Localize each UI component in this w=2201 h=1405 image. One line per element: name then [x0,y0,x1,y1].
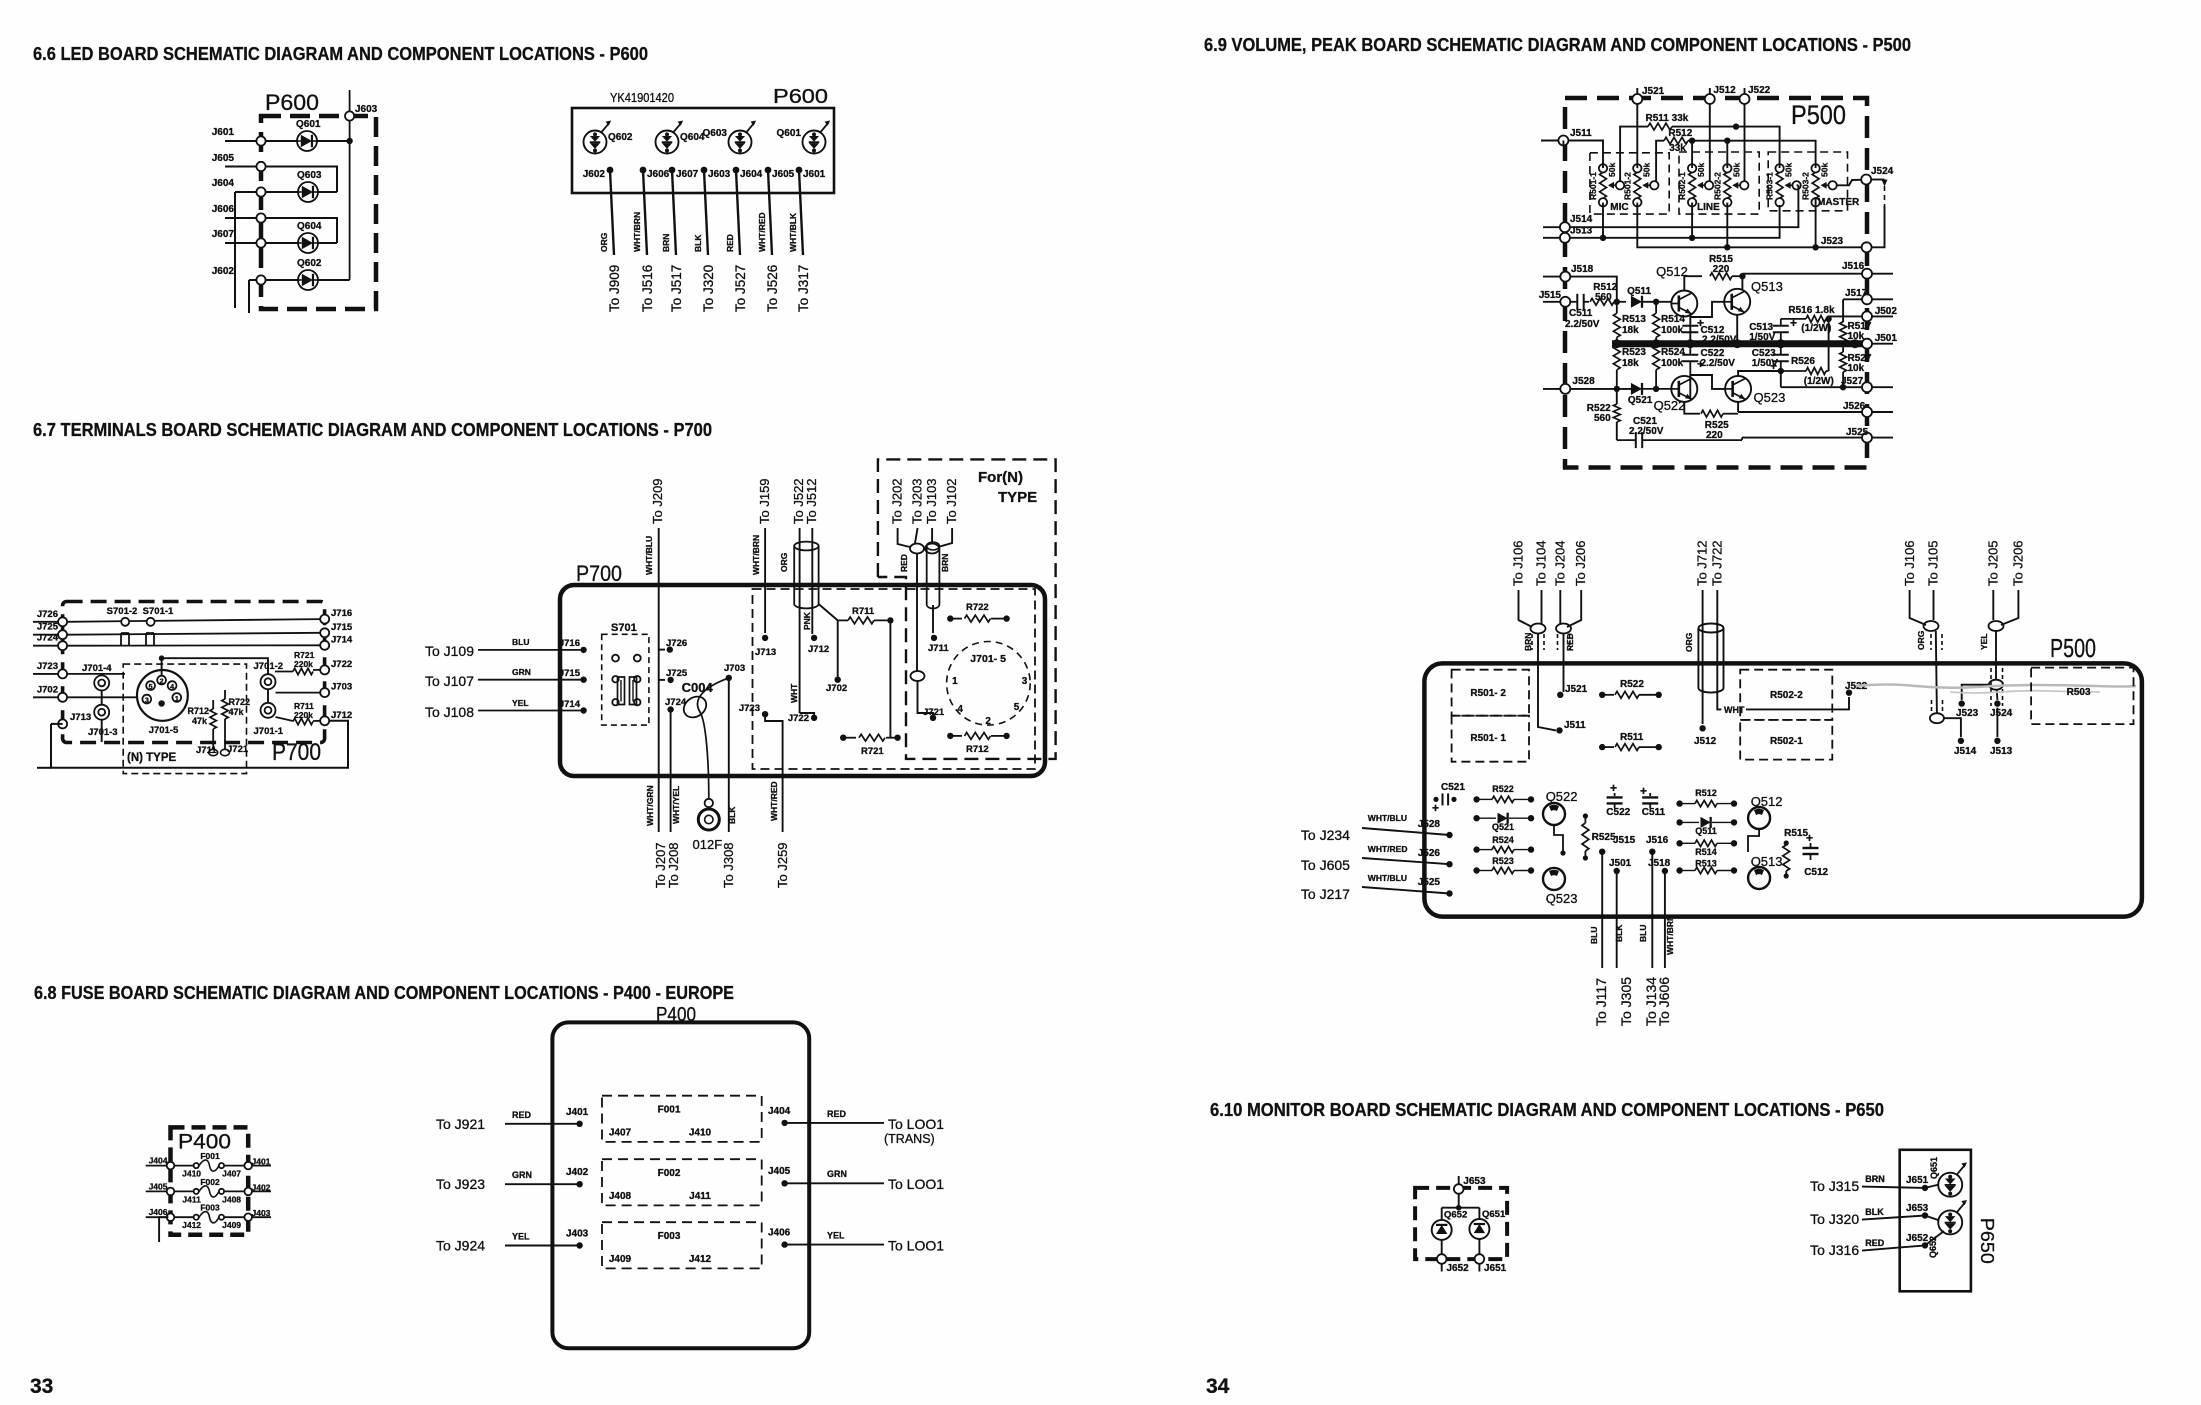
node J401 [576,1121,582,1127]
node J712 [811,635,817,641]
svg-text:R502-2: R502-2 [1770,690,1803,701]
svg-text:J401: J401 [252,1157,271,1167]
connector pin J525 [1862,433,1872,443]
wire row J725-J715 [67,633,320,635]
svg-text:RED: RED [725,234,735,252]
svg-text:J711: J711 [196,745,217,756]
svg-text:To J909: To J909 [607,265,622,312]
resistor R512 (comp loc) [1676,800,1682,806]
wire To J512 drop [811,528,813,634]
svg-text:J512: J512 [1714,85,1737,96]
wire J701-2 to J701-1 [267,689,269,703]
svg-text:J603: J603 [708,169,731,180]
svg-text:Q602: Q602 [297,258,322,269]
svg-text:F003: F003 [200,1203,220,1213]
svg-text:J726: J726 [666,638,687,649]
connector pin J604 [256,187,265,196]
connector pin J703 [320,688,329,697]
cable tube 2 [926,546,928,605]
arrow at J524 [1871,179,1884,181]
wire row J726-J716 with switch S701 [67,619,320,622]
svg-text:J410: J410 [689,1128,712,1139]
svg-text:TYPE: TYPE [998,489,1037,506]
node right of R711 [887,617,893,623]
wire J726 stub [33,621,63,623]
svg-text:To J206: To J206 [2011,540,2026,586]
LED Q604 (component location) [656,131,679,154]
wire J607 lead [672,170,676,255]
resistor R522 (comp loc lower) [1473,796,1479,802]
svg-text:F001: F001 [658,1105,681,1116]
wire J602 row [249,279,298,281]
svg-text:+: + [1806,831,1813,845]
svg-text:2: 2 [985,716,991,727]
wire ring1 down to ring3 [916,554,918,672]
svg-text:YEL: YEL [827,1231,845,1241]
wire Q523 base link [1690,375,1725,389]
svg-text:To LOO1: To LOO1 [888,1116,944,1132]
svg-text:Q603: Q603 [703,128,728,139]
wire to LOO1 row 2 [785,1182,884,1184]
svg-text:Q522: Q522 [1654,398,1686,413]
wire J605 row [225,167,337,193]
svg-text:C522: C522 [1606,807,1630,818]
svg-text:PNK: PNK [802,611,812,630]
svg-text:R516 1.8k: R516 1.8k [1788,305,1835,316]
capacitor C511 2.2/50V [1570,301,1577,303]
svg-text:220k: 220k [294,659,313,669]
svg-text:2.2/50V: 2.2/50V [1629,426,1664,437]
svg-text:J405: J405 [768,1166,791,1177]
wire row J723 [67,673,125,675]
svg-text:GRN: GRN [827,1169,847,1179]
svg-text:To J512: To J512 [804,478,819,524]
connector pin J723 [58,669,67,678]
svg-text:R524: R524 [1492,835,1514,845]
svg-text:To J722: To J722 [1709,540,1724,586]
wire Q513 base link [1690,302,1724,317]
svg-text:J701- 5: J701- 5 [970,653,1006,665]
MIC pot dashed box [1590,153,1669,214]
svg-text:To J109: To J109 [425,643,474,659]
wire R711 node down [889,620,891,737]
svg-text:R511: R511 [1620,732,1644,743]
node J702 [835,677,841,683]
svg-text:+: + [1432,801,1439,815]
connector pin J517 [1862,294,1872,304]
svg-text:J521: J521 [1642,86,1665,97]
LINE pot dashed box [1679,152,1759,214]
resistor R527 10k [1840,352,1847,372]
potentiometer R503-1 50k [1776,172,1783,198]
svg-text:YEL: YEL [512,698,529,708]
svg-text:Q511: Q511 [1627,286,1651,297]
svg-text:J607: J607 [212,229,235,240]
svg-text:J701-1: J701-1 [254,726,284,737]
wire Q522 emitter down [1689,376,1691,400]
svg-text:S701-1: S701-1 [143,606,174,617]
svg-text:J516: J516 [1842,261,1865,272]
connector pin J513 [1560,233,1570,243]
wire J603 vertical [349,90,351,280]
wire Q522-Q523 link [1554,825,1563,853]
DIN pin 2 [157,676,166,685]
wire R515 node to J516 row [1741,276,1743,289]
svg-text:J412: J412 [182,1220,201,1230]
svg-text:WHT/RED: WHT/RED [757,212,767,252]
wire J723 stub [33,673,63,675]
svg-text:J721: J721 [227,744,249,755]
LED Q601 (component location) [803,131,826,154]
svg-text:J515: J515 [1539,290,1562,301]
svg-text:(1/2W): (1/2W) [1801,323,1831,334]
connector pin J605 [256,162,265,171]
svg-text:R512: R512 [1695,788,1717,798]
svg-text:J701-2: J701-2 [254,661,284,672]
wire J604 lead [736,170,740,255]
svg-text:J502: J502 [1875,306,1898,317]
terminal 012F [705,799,713,807]
connector pin J602 [256,275,265,284]
node J406 [781,1241,787,1247]
svg-text:R503-2: R503-2 [1801,172,1811,200]
wire J723 drop [765,714,783,832]
svg-text:3: 3 [145,696,149,705]
wire J604 external drop [234,192,236,308]
wire To J107 row [478,679,584,681]
svg-text:J404: J404 [149,1156,168,1166]
resistor R513 (comp loc) [1676,867,1682,873]
wire R722 to J721 [224,719,226,749]
svg-text:J605: J605 [772,169,795,180]
svg-text:R711: R711 [852,606,875,617]
connector pin J722 [320,665,329,674]
svg-text:F003: F003 [658,1231,681,1242]
svg-text:J407: J407 [222,1169,241,1179]
svg-text:Q521: Q521 [1628,395,1653,406]
svg-text:R503-1: R503-1 [1765,172,1775,200]
connector pin J515 [1560,297,1570,307]
terminal J721 [221,749,230,755]
svg-text:J408: J408 [609,1191,632,1202]
wire J522 to R502-2 wiper [1744,104,1746,181]
svg-text:3: 3 [1022,676,1028,687]
svg-text:J513: J513 [1990,746,2013,757]
svg-text:R523: R523 [1622,347,1646,358]
svg-text:Q603: Q603 [297,170,322,181]
svg-text:F002: F002 [200,1177,220,1187]
terminal J711 [209,749,218,755]
main bus (thick) [1612,340,1871,347]
svg-text:J725: J725 [37,622,59,633]
svg-text:1: 1 [952,676,958,687]
board P600 outline (component location) [572,108,834,193]
svg-text:J653: J653 [1463,1176,1486,1187]
svg-text:To J117: To J117 [1593,978,1609,1026]
connector pin J521 [1636,88,1638,94]
svg-text:J412: J412 [689,1254,712,1265]
wire R503-1 wiper down [1797,184,1799,186]
svg-text:To J308: To J308 [721,842,736,888]
DIN pin 4 [168,681,177,690]
svg-text:J701-5: J701-5 [149,725,179,736]
svg-text:To J317: To J317 [796,265,811,312]
connector pin J601 [256,136,265,145]
node J404 [781,1120,787,1126]
cable ring 2 [925,544,939,554]
wire J606 row [225,218,337,243]
node J724 [667,706,673,712]
R501-2 / R501-1 dashed boxes [1452,670,1529,716]
node J522 (comp loc) [1846,690,1852,696]
svg-text:50k: 50k [1784,163,1794,177]
wire R722 top [224,690,226,699]
svg-text:F002: F002 [658,1168,681,1179]
svg-text:For(N): For(N) [978,469,1023,486]
wire Q512 collector to R515 [1684,276,1702,290]
pin J605 (component location) [765,167,772,174]
pin J604 (component location) [733,167,740,174]
svg-text:WHT/RED: WHT/RED [1368,844,1408,854]
node J513 (comp loc right) [1996,708,1998,737]
wire J605 lead [768,170,772,255]
scan noise streak [1856,685,2136,688]
svg-text:4: 4 [957,704,963,715]
wire R502-1 top [1691,141,1693,168]
svg-text:J406: J406 [149,1207,168,1217]
connector pin J715 [320,628,329,637]
svg-text:220k: 220k [294,710,313,720]
wire To J712 through tube to J512 [1702,590,1704,724]
svg-text:J411: J411 [689,1191,711,1202]
resistor R523 (comp loc) [1473,867,1479,873]
wire R526 to R516 node [1828,319,1830,371]
svg-text:J652: J652 [1447,1263,1470,1274]
node J716 [580,647,586,653]
svg-text:To J320: To J320 [1810,1211,1859,1227]
node J722 [811,715,817,721]
wire J517 row [1842,299,1844,322]
svg-text:100k: 100k [1661,358,1684,369]
svg-text:100k: 100k [1661,325,1684,336]
svg-text:To J159: To J159 [757,478,772,524]
wire To J522 drop inside tube [799,528,801,713]
wire To J202 elbow [898,528,910,547]
wire R511 connections [1620,127,1648,182]
switch S701-1 contact [147,618,155,626]
svg-text:J403: J403 [252,1208,271,1218]
connector pin J524 [1861,175,1871,185]
svg-text:J525: J525 [1846,427,1869,438]
wire J526 row [1738,411,1862,413]
wire cable to R711 node [819,604,838,620]
svg-text:J601: J601 [803,169,826,180]
svg-text:R503: R503 [2067,687,2091,698]
connector pin J651 (schematic) [1475,1254,1485,1264]
resistor R712 (schematic bottom) [947,733,953,739]
wire node to J701-2 [162,658,268,674]
svg-text:J703: J703 [724,663,745,674]
cable ring 3 [911,671,925,681]
svg-text:Q522: Q522 [1546,789,1578,804]
cable shield tube [793,546,795,604]
svg-text:R523: R523 [1492,856,1514,866]
diode Q601 [297,131,317,151]
resistor R525 220 [1701,410,1723,417]
svg-text:Q521: Q521 [1492,822,1514,832]
svg-text:MASTER: MASTER [1817,197,1860,208]
svg-text:J607: J607 [676,169,699,180]
pin J606 (component location) [640,167,647,174]
wire J521 to R501-2 [1636,104,1638,168]
svg-text:J701-4: J701-4 [82,663,112,674]
DIN pin 5 [146,681,155,690]
svg-text:WHT/BRN: WHT/BRN [751,535,761,575]
svg-text:J651: J651 [1906,1175,1929,1186]
svg-text:J722: J722 [331,659,352,670]
svg-text:J605: J605 [212,153,235,164]
connector pin J523 [1862,242,1872,252]
cable ring 1 [910,544,924,554]
cable ring ORG lower [1930,713,1944,723]
node J725 [659,679,665,681]
svg-text:P700: P700 [576,561,622,586]
transistor Q522 [1671,376,1697,402]
svg-text:To J527: To J527 [733,265,748,312]
node J405 [781,1180,787,1186]
svg-text:R513: R513 [1695,859,1717,869]
wire J701-4 to J701-3 [101,690,103,704]
board P600 dashed outline [261,116,376,309]
svg-text:J653: J653 [1906,1203,1929,1214]
svg-text:To J206: To J206 [1573,540,1588,586]
fuse F001 row (component location) [146,1165,193,1167]
svg-text:J404: J404 [768,1106,791,1117]
connector pin J702 [58,693,67,702]
svg-text:J515: J515 [1613,835,1636,846]
svg-text:J512: J512 [1694,736,1717,747]
wire J606 lead [643,170,647,255]
wire Q523 emitter to J526 row [1737,402,1739,412]
svg-text:J725: J725 [666,668,688,679]
wire R712 to J711 [212,729,214,749]
DIN location J701-5 dashed circle [947,642,1031,726]
svg-text:To J924: To J924 [436,1238,485,1254]
svg-text:GRN: GRN [512,667,531,677]
wire J602 lead [610,170,614,255]
wire J723 to J701-4 [101,674,103,676]
svg-text:WHT: WHT [1724,705,1745,715]
svg-text:R502-1: R502-1 [1677,172,1687,200]
svg-text:To J104: To J104 [1534,540,1549,586]
diode Q521 (comp loc) [1473,815,1479,821]
svg-text:Q601: Q601 [296,119,321,130]
switch armature left [612,676,618,682]
fuse F002 row (component location) [146,1190,193,1192]
svg-text:J409: J409 [609,1254,632,1265]
LED Q603 (component location) [729,131,752,154]
node J521 (comp loc) [1557,692,1563,698]
pin J601 (component location) [796,167,803,174]
svg-text:50k: 50k [1731,163,1741,177]
resistor R523 18k [1613,346,1620,370]
svg-text:6.10 MONITOR BOARD SCHEMATIC: 6.10 MONITOR BOARD SCHEMATIC DIAGRAM AND… [1210,1099,1884,1120]
wire pot bottoms to J513 row [1602,203,1604,238]
svg-text:P700: P700 [272,739,321,766]
svg-text:J411: J411 [182,1194,201,1204]
wire C004 lead to terminal 012F [697,678,728,799]
svg-text:+: + [1640,784,1647,798]
svg-text:J521: J521 [1565,684,1588,695]
fuse F001 dashed box [602,1096,762,1142]
svg-text:50k: 50k [1607,163,1617,177]
svg-text:MIC: MIC [1610,202,1628,213]
svg-text:J606: J606 [212,204,235,215]
DIN connector J701-5 outline [137,670,188,721]
capacitor C522 2.2/50V [1682,354,1698,356]
wire J602 external drop [248,280,250,313]
svg-text:BRN: BRN [1865,1174,1885,1184]
svg-text:To J205: To J205 [1986,540,2001,586]
svg-text:To J204: To J204 [1552,540,1567,586]
svg-text:R511 33k: R511 33k [1646,113,1689,124]
svg-text:RED: RED [827,1109,847,1119]
resistor R517 10k [1840,322,1847,342]
wire J703 drop [728,678,730,832]
wire Q523 collector up [1738,371,1781,376]
svg-text:WHT/GRN: WHT/GRN [645,785,655,826]
cable dashed tails left cluster [1531,634,1533,650]
svg-text:R722: R722 [966,602,989,613]
svg-text:J526: J526 [1843,401,1866,412]
svg-text:R721: R721 [861,746,884,757]
node J726 [659,649,665,651]
svg-text:2: 2 [160,677,164,686]
wire To J722 to J522 [1717,590,1721,709]
wire J524 loop down to J523 [1871,206,1884,247]
wire To J159 drop [764,528,766,633]
transistor Q523 (comp loc) [1543,868,1565,890]
svg-text:18k: 18k [1622,358,1639,369]
svg-text:6.7 TERMINALS BOARD SCHEMATIC: 6.7 TERMINALS BOARD SCHEMATIC DIAGRAM AN… [33,419,712,440]
svg-text:YK41901420: YK41901420 [610,91,674,105]
svg-text:J651: J651 [1484,1263,1507,1274]
node J511 (comp loc) [1556,727,1562,733]
svg-text:Q511: Q511 [1695,826,1717,836]
connector pin J606 [256,213,265,222]
svg-text:R502-1: R502-1 [1770,736,1803,747]
wire R522 down to C521 row [1616,422,1618,440]
svg-text:6.9 VOLUME, PEAK BOARD SCHEMA: 6.9 VOLUME, PEAK BOARD SCHEMATIC DIAGRAM… [1204,34,1911,55]
wire J516 row [1742,273,1862,275]
wire J725 stub [33,634,63,636]
wire To J106 elbow to cable [1519,590,1533,627]
svg-text:RED: RED [899,554,909,572]
wire To J204 drop [1559,590,1561,624]
svg-text:J402: J402 [566,1167,589,1178]
resistor R511 (comp loc) [1599,744,1605,750]
svg-text:R712: R712 [966,744,989,755]
svg-text:WHT/YEL: WHT/YEL [671,786,681,824]
svg-text:J726: J726 [37,609,58,620]
connector pin J516 [1862,269,1872,279]
connector J701-4 [94,675,109,690]
resistor R525 (comp loc vertical) [1582,823,1589,851]
node J721 [930,715,936,721]
svg-text:J511: J511 [1564,720,1586,731]
switch armature right [634,676,640,682]
svg-text:J525: J525 [1418,877,1441,888]
